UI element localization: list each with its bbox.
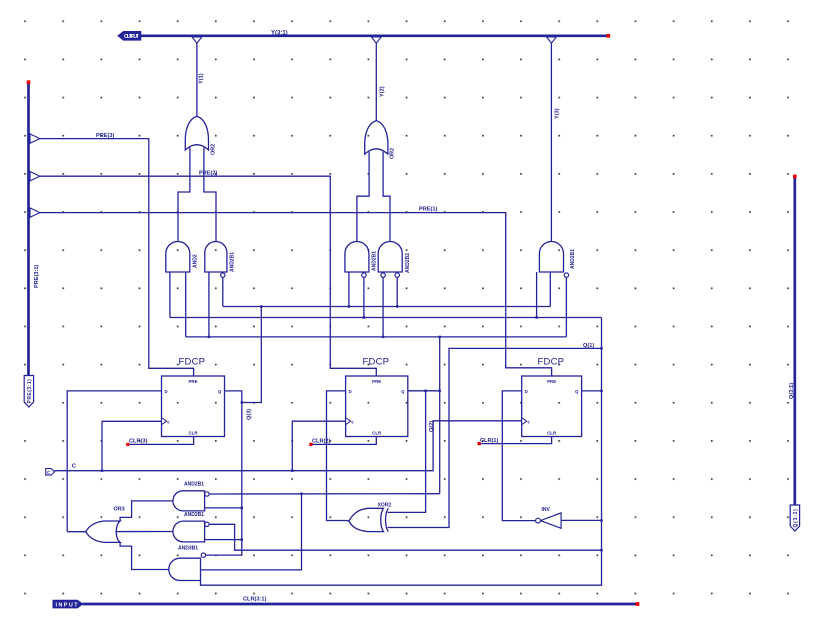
svg-text:PRE(3:1): PRE(3:1) bbox=[34, 265, 40, 288]
svg-text:CLR(3): CLR(3) bbox=[129, 439, 147, 445]
svg-text:OUTPUT: OUTPUT bbox=[124, 34, 140, 40]
svg-text:INV: INV bbox=[542, 507, 551, 513]
svg-text:PRE(3): PRE(3) bbox=[96, 133, 114, 139]
svg-text:CLR: CLR bbox=[372, 430, 382, 435]
svg-text:AND3B1: AND3B1 bbox=[178, 545, 198, 551]
svg-text:Q(2): Q(2) bbox=[429, 421, 435, 432]
svg-text:OR2: OR2 bbox=[390, 148, 396, 159]
svg-text:Y(3:1): Y(3:1) bbox=[271, 30, 288, 36]
svg-text:D: D bbox=[165, 389, 168, 394]
svg-text:Q(1): Q(1) bbox=[583, 343, 594, 349]
svg-text:AND2B1: AND2B1 bbox=[570, 249, 576, 269]
svg-text:PRE: PRE bbox=[372, 379, 381, 384]
svg-text:PRE: PRE bbox=[188, 379, 197, 384]
svg-text:AND2: AND2 bbox=[192, 254, 198, 268]
svg-text:CLR(3:1): CLR(3:1) bbox=[243, 596, 266, 602]
svg-text:PRE: PRE bbox=[547, 379, 556, 384]
svg-text:CLR(2): CLR(2) bbox=[312, 439, 330, 445]
svg-text:D: D bbox=[349, 389, 352, 394]
svg-text:AND2B1: AND2B1 bbox=[230, 252, 236, 272]
svg-text:AND2B2: AND2B2 bbox=[405, 253, 411, 273]
svg-text:Q(3:1): Q(3:1) bbox=[789, 383, 795, 399]
svg-text:PRE(2): PRE(2) bbox=[199, 171, 217, 177]
svg-text:Y(2): Y(2) bbox=[379, 86, 385, 97]
svg-text:CLR(1): CLR(1) bbox=[480, 438, 498, 444]
svg-text:OR3: OR3 bbox=[114, 507, 125, 513]
svg-text:AND2B1: AND2B1 bbox=[184, 512, 204, 518]
svg-text:CLR: CLR bbox=[547, 430, 557, 435]
svg-text:FDCP: FDCP bbox=[363, 357, 390, 368]
svg-text:AND2B1: AND2B1 bbox=[184, 481, 204, 487]
svg-text:PRE(3:1): PRE(3:1) bbox=[27, 379, 33, 404]
svg-text:Q(3:1): Q(3:1) bbox=[793, 509, 799, 528]
svg-text:Q(3): Q(3) bbox=[247, 409, 253, 420]
svg-text:OR2: OR2 bbox=[210, 144, 216, 155]
svg-text:XOR2: XOR2 bbox=[378, 503, 392, 509]
svg-text:CLR: CLR bbox=[188, 430, 198, 435]
svg-text:Y(3): Y(3) bbox=[554, 108, 560, 119]
svg-text:D: D bbox=[525, 389, 528, 394]
svg-text:PRE(1): PRE(1) bbox=[419, 206, 437, 212]
svg-text:FDCP: FDCP bbox=[179, 357, 206, 368]
svg-text:FDCP: FDCP bbox=[538, 357, 565, 368]
svg-text:Y(1): Y(1) bbox=[199, 73, 205, 84]
svg-text:INPUT: INPUT bbox=[56, 602, 79, 608]
svg-text:AND2B1: AND2B1 bbox=[372, 251, 378, 271]
